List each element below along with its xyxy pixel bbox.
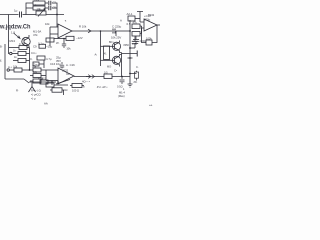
wire inv input U3 [46,80,58,82]
svg-text:·s: ·s [64,19,67,23]
wire op-amp1 output run [72,30,112,32]
wire C3 to node [52,3,57,15]
wire U2 feedback loop [142,25,158,43]
resistor R19 top right [128,16,135,21]
transistor Q4 bottom-left [24,79,36,92]
wire RP1 to node [46,14,64,16]
wire R19 to tee [135,18,140,20]
wire bottom-left bus [5,78,24,80]
capacitor C5 [49,6,51,10]
svg-text:1.8: 1.8 [11,31,15,35]
resistor R9 [33,68,41,72]
transistor Q2 [112,42,120,50]
wire row4 [9,69,14,71]
svg-text:4Ω: 4Ω [64,88,67,92]
svg-text:10k: 10k [37,7,42,11]
svg-text:•(·μ: •(·μ [31,97,36,101]
resistor R21 [72,84,82,88]
svg-text:A· C16: A· C16 [66,63,75,67]
wire row1 mid-left [9,47,19,49]
node G junction dot [129,73,131,75]
wire R9 to U3 [41,70,58,71]
wire zener branch [130,71,137,74]
resistor R13 [66,36,74,40]
op-amp U1 [58,24,72,38]
input jack J2 [7,69,9,71]
node F junction dot [129,57,131,59]
wire ZD1 bottom [136,78,138,80]
svg-text:10k: 10k [13,65,18,69]
capacitor C11 below [133,36,139,44]
svg-text:100k: 100k [146,37,152,41]
wire U1 non-inv [50,26,58,28]
node H junction dot [63,38,65,40]
wire far-left rail [4,44,6,79]
capacitor C16 top of U3 [60,62,64,69]
wire R14 to node C [112,76,130,78]
svg-text:BA·0.5: BA·0.5 [38,77,46,81]
node E junction dot [129,47,131,49]
arrow signal mid [88,29,91,33]
svg-text:C16 10μ: C16 10μ [50,62,61,66]
svg-text:C4·•: C4·• [31,51,37,55]
wire U1 inv input [50,33,58,35]
wire node A down to op-amp U1 [56,15,58,28]
svg-text:47k: 47k [133,21,138,25]
svg-text:•10μ: •10μ [47,45,53,49]
resistor R6 [18,52,26,56]
wire node C up to output stage [121,55,123,77]
resistor R8 [14,68,22,72]
potentiometer RP1 wiper arrow [38,9,45,17]
wire U3 feedback bottom [52,81,68,86]
wire bottom run [29,81,56,83]
svg-text:+e·: +e· [149,103,153,107]
svg-text:R 10k: R 10k [79,25,87,29]
svg-text:1k·: 1k· [14,56,18,59]
capacitor C9 box [39,44,46,48]
svg-text:1k·: 1k· [13,49,17,52]
resistor R2 [33,1,45,5]
wire U2 inputs [140,22,144,28]
svg-text:W·: W· [56,41,60,45]
bias network box D1 D2 [104,46,110,60]
wire R8 to node B [22,69,33,71]
op-amp U3 [58,68,74,84]
arrow signal right [86,75,94,79]
wire left bus vertical [8,15,10,55]
svg-text:4.7μ: 4.7μ [46,57,52,61]
wire node C down capacitor C18 [120,77,125,85]
resistor R7 [18,59,26,63]
svg-text:10k: 10k [45,22,50,26]
node B junction dot [29,69,31,71]
svg-text:C•: C• [114,69,117,73]
arrow signal left [14,33,21,39]
svg-text:10k 25V: 10k 25V [111,36,121,40]
svg-text:C·: C· [19,43,22,46]
svg-text:C3: C3 [53,1,57,5]
svg-text:C9: C9 [33,45,37,49]
input jack J1 [10,52,12,54]
wire R6 to bus [26,53,30,55]
wire U2 output [157,24,160,26]
wire bias to Q3 base [101,59,115,61]
svg-text:2200μ: 2200μ [140,40,148,43]
terminal bar output [136,51,138,57]
svg-text:ZD·: ZD· [134,81,138,84]
svg-text:(Max): (Max) [118,94,125,98]
svg-text:A›: A› [95,53,98,57]
resistor R10 [33,74,41,78]
svg-text:C5: C5 [53,6,57,10]
resistor R14 [104,74,112,79]
resistor R15 right rail upper [132,24,140,29]
transistor Q3 leads [115,55,122,67]
wire tick at node F [128,57,133,59]
svg-text:−12V: −12V [76,36,83,40]
wire U1 inv riser [49,27,51,46]
wire after C1 [23,14,37,16]
svg-text:100 Ω: 100 Ω [72,89,79,93]
svg-text:0.1μ: 0.1μ [38,42,44,46]
svg-text:220μ: 220μ [144,18,151,22]
wire R11 left [30,80,33,82]
resistor R18 feedback [146,40,152,45]
potentiometer RP1 [36,11,46,15]
svg-text:OP: OP [66,72,70,76]
svg-text:41: 41 [104,54,107,56]
svg-text:10k: 10k [32,65,37,69]
svg-text:AA: AA [44,102,48,106]
wire stub x42 [41,78,43,81]
node K junction dot [57,81,59,83]
ground symbol right [128,84,133,87]
wire U3 output [74,76,104,78]
svg-text:A·•: A·• [8,65,12,69]
wire emitter node [122,53,138,55]
wire C10 stub [39,60,44,68]
wire inv bus vertical [45,70,47,81]
wire R3 branch [26,7,33,9]
capacitor C6 [62,44,66,48]
transistor Q2 leads [115,41,122,53]
wire R15 R16 to U2 [140,26,142,34]
right rail vertical [129,20,131,84]
svg-text:A2-1: A2-1 [127,12,133,16]
wire row2 [12,53,18,55]
resistor R20 [40,80,48,84]
svg-text:A: A [120,19,122,23]
svg-text:0.5Ω: 0.5Ω [117,85,123,89]
svg-text:8050: 8050 [124,44,130,47]
svg-text:0.5: 0.5 [127,22,131,26]
svg-text:M13: M13 [10,39,16,43]
wire mid-left bus vertical [29,48,31,71]
transistor Q1 [22,37,30,45]
resistor R23 feedback U3 [46,83,54,87]
wire feedback riser [26,3,33,15]
capacitor C10 plus box [33,62,39,66]
svg-text:100k: 100k [34,0,40,2]
node J junction dot [51,81,53,83]
svg-text:R·: R· [16,89,19,93]
resistor R3 [33,6,45,10]
svg-text:C·: C· [30,57,33,61]
svg-text:BD·•: BD·• [109,41,114,44]
svg-text:w.jqdzw.Ch: w.jqdzw.Ch [0,24,31,30]
resistor R12 [46,38,54,42]
resistor R5 [19,46,27,50]
wire R3 to C5 [45,7,48,9]
switch S1 diagonal [56,80,70,85]
svg-text:C14: C14 [132,42,137,46]
wire row5 [30,75,33,77]
svg-text:£:: £: [0,59,2,63]
wire U1 feedback row [54,38,66,40]
node I junction dot [100,30,102,32]
node D junction dot [129,30,131,32]
wire C14 to rail [130,47,135,49]
transistor Q3 [112,56,120,64]
svg-text:1: 1 [123,87,125,91]
resistor R11 [33,79,41,83]
svg-text:a: a [83,85,85,89]
wire C5 to node [52,7,57,9]
wire stub below C8 [115,31,117,36]
wire R2 to C3 [45,2,48,4]
svg-text:0.5: 0.5 [104,71,108,75]
svg-text:B·: B· [0,45,3,49]
wire after switch [70,85,84,87]
wire antenna tee [137,12,143,23]
svg-text:C·: C· [136,65,139,69]
wire input top-left horizontal [0,14,19,16]
wire row3 [13,60,18,62]
wire meter branch [50,90,64,95]
wire C8 to right rail [116,30,130,32]
wire bias to Q2 base [101,45,115,47]
wire rail to bus [100,31,102,35]
svg-text:·P•=·•W·•: ·P•=·•W·• [96,85,107,89]
svg-text:·10k: ·10k [66,47,72,51]
svg-text:5532: 5532 [148,13,155,17]
svg-text:MG·: MG· [107,65,112,68]
capacitor C1 series [20,12,22,18]
wire node H down [63,39,65,44]
output rail vertical x100 [100,35,102,66]
svg-text:M1-4: M1-4 [119,91,125,95]
capacitor C14 output [132,37,138,49]
meter M1 [52,88,62,92]
wire R10 to inv bus [41,75,46,77]
node C junction dot [121,76,123,78]
resistor R22 [37,56,45,60]
svg-text:1μ: 1μ [14,9,18,13]
wire R5 to bus [27,47,30,49]
svg-text:47k: 47k [33,33,38,37]
svg-text:C·220μ: C·220μ [112,25,122,29]
capacitor C8 series [113,29,115,34]
op-amp U2 [144,19,157,31]
resistor R16 right rail lower [132,32,140,37]
transistor Q1 leads [24,35,29,48]
svg-text:4Ω—·•: 4Ω—·• [82,80,90,84]
wire R7 to bus [26,60,30,62]
zener diode ZD1 [135,72,139,78]
capacitor C3 [49,1,51,5]
node A junction dot [56,14,58,16]
